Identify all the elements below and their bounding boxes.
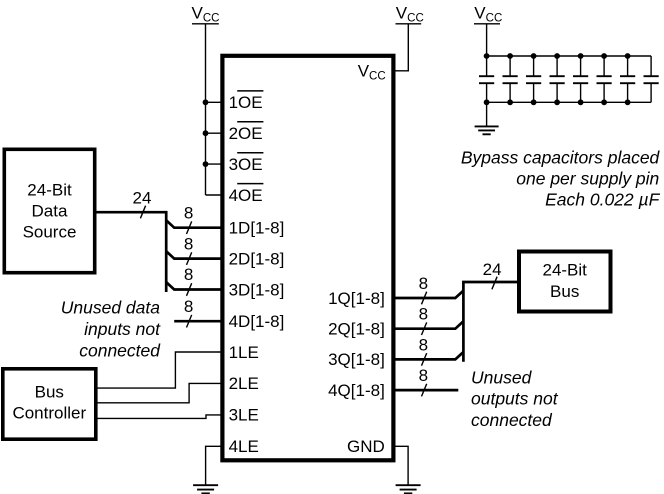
svg-text:8: 8 xyxy=(184,265,193,284)
svg-text:4D[1-8]: 4D[1-8] xyxy=(229,312,285,331)
svg-text:1D[1-8]: 1D[1-8] xyxy=(229,219,285,238)
svg-text:8: 8 xyxy=(419,274,428,293)
svg-text:Bus: Bus xyxy=(550,282,579,301)
svg-text:Unused: Unused xyxy=(471,368,533,388)
svg-text:24-Bit: 24-Bit xyxy=(542,261,587,280)
svg-text:Unused data: Unused data xyxy=(61,298,161,318)
svg-text:connected: connected xyxy=(471,410,553,430)
svg-text:Data: Data xyxy=(32,202,68,221)
svg-text:3OE: 3OE xyxy=(229,155,263,174)
svg-text:Controller: Controller xyxy=(12,403,86,422)
svg-text:inputs not: inputs not xyxy=(84,319,161,339)
svg-text:8: 8 xyxy=(184,297,193,316)
svg-text:24: 24 xyxy=(133,188,152,207)
svg-text:2OE: 2OE xyxy=(229,124,263,143)
svg-text:4OE: 4OE xyxy=(229,186,263,205)
svg-text:GND: GND xyxy=(347,437,385,456)
svg-text:24: 24 xyxy=(483,260,502,279)
svg-text:one per supply pin: one per supply pin xyxy=(516,169,659,189)
svg-text:Each 0.022 µF: Each 0.022 µF xyxy=(545,190,660,210)
svg-text:2Q[1-8]: 2Q[1-8] xyxy=(328,320,385,339)
svg-text:3Q[1-8]: 3Q[1-8] xyxy=(328,350,385,369)
svg-text:Source: Source xyxy=(23,223,77,242)
svg-text:8: 8 xyxy=(419,366,428,385)
svg-text:2LE: 2LE xyxy=(229,374,259,393)
svg-text:8: 8 xyxy=(419,305,428,324)
svg-text:8: 8 xyxy=(419,335,428,354)
svg-text:1OE: 1OE xyxy=(229,93,263,112)
svg-text:24-Bit: 24-Bit xyxy=(27,180,72,199)
svg-text:8: 8 xyxy=(184,203,193,222)
svg-text:Bus: Bus xyxy=(35,382,64,401)
svg-text:3D[1-8]: 3D[1-8] xyxy=(229,280,285,299)
svg-text:4Q[1-8]: 4Q[1-8] xyxy=(328,381,385,400)
svg-text:4LE: 4LE xyxy=(229,437,259,456)
svg-text:outputs not: outputs not xyxy=(471,389,559,409)
svg-text:1Q[1-8]: 1Q[1-8] xyxy=(328,289,385,308)
svg-text:2D[1-8]: 2D[1-8] xyxy=(229,249,285,268)
svg-text:8: 8 xyxy=(184,234,193,253)
svg-text:1LE: 1LE xyxy=(229,343,259,362)
svg-text:Bypass capacitors placed: Bypass capacitors placed xyxy=(461,148,661,168)
svg-text:3LE: 3LE xyxy=(229,406,259,425)
svg-text:connected: connected xyxy=(79,341,161,361)
